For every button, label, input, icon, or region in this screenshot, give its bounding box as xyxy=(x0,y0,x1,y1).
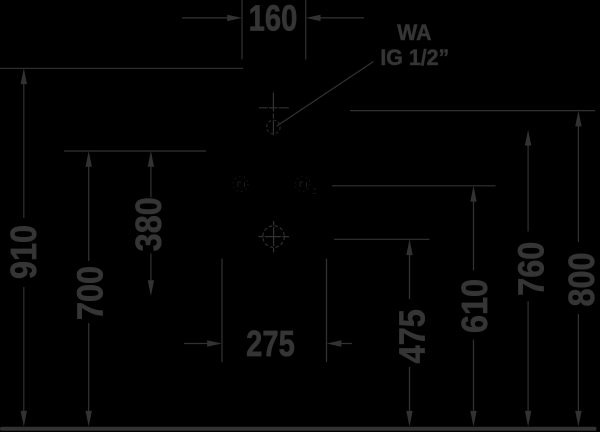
svg-text:910: 910 xyxy=(4,225,44,279)
svg-text:380: 380 xyxy=(130,197,170,251)
svg-text:700: 700 xyxy=(71,266,111,320)
svg-text:610: 610 xyxy=(455,279,495,333)
svg-text:800: 800 xyxy=(562,252,600,306)
svg-text:160: 160 xyxy=(249,0,298,38)
svg-text:275: 275 xyxy=(246,323,295,364)
svg-text:760: 760 xyxy=(512,242,552,296)
svg-text:IG 1/2”: IG 1/2” xyxy=(380,44,449,70)
svg-text:WA: WA xyxy=(397,20,432,46)
svg-text:475: 475 xyxy=(393,309,433,363)
